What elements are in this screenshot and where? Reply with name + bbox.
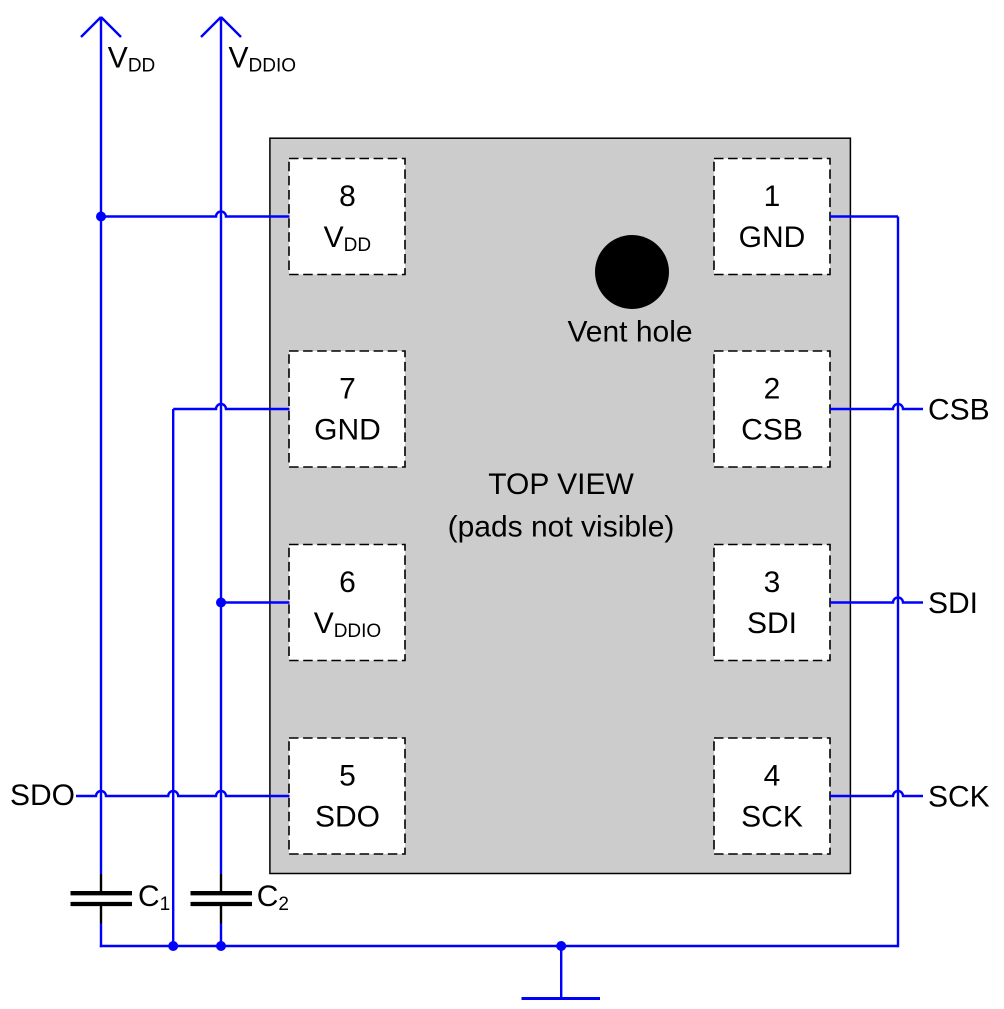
wire pad 7 to GND vertical (hop over VDDIO line) bbox=[173, 404, 289, 409]
pad 1 GND bbox=[714, 159, 830, 275]
wire VDD vertical (x=101) top segment bbox=[100, 17, 102, 874]
wire pad 1 to right vertical bus bbox=[830, 215, 898, 217]
power symbol VDD arrow bbox=[81, 17, 121, 37]
svg-text:TOP VIEW: TOP VIEW bbox=[488, 468, 634, 501]
wire VDD junction to pad 8 (hop over VDDIO line) bbox=[101, 212, 290, 217]
svg-text:SDO: SDO bbox=[315, 801, 380, 834]
pad 7 GND bbox=[289, 351, 405, 467]
node junction dot GND line / bus bbox=[168, 941, 178, 951]
svg-text:3: 3 bbox=[764, 566, 781, 599]
node junction dot ground symbol / bus bbox=[556, 941, 566, 951]
pad 4 SCK bbox=[714, 738, 830, 854]
svg-text:7: 7 bbox=[339, 373, 356, 406]
pad 5 SDO bbox=[289, 738, 405, 854]
node junction dot VDDIO-C2 line / bus bbox=[216, 941, 226, 951]
pad 8 VDD bbox=[289, 159, 405, 275]
capacitor C2 bbox=[191, 874, 253, 924]
svg-text:SCK: SCK bbox=[928, 781, 990, 814]
wire pad 4 to SCK label (hop over right vertical) bbox=[830, 791, 923, 796]
wire VDDIO junction to pad 6 bbox=[221, 601, 290, 603]
chip body U1 (top view) bbox=[270, 138, 851, 873]
node junction dot VDDIO/pad6 bbox=[216, 598, 226, 608]
svg-text:GND: GND bbox=[314, 414, 381, 447]
svg-text:SDO: SDO bbox=[10, 779, 75, 812]
wire VDDIO vertical (x=221) top segment bbox=[220, 17, 222, 874]
svg-text:Vent hole: Vent hole bbox=[567, 316, 692, 349]
svg-text:CSB: CSB bbox=[928, 394, 990, 427]
pad 6 VDDIO bbox=[289, 545, 405, 661]
wire VDD vertical lower segment below C1 bbox=[100, 924, 102, 948]
ground symbol bbox=[522, 946, 601, 999]
svg-text:CSB: CSB bbox=[741, 414, 803, 447]
wire pad 2 to CSB label (hop over right vertical) bbox=[830, 404, 923, 409]
svg-text:(pads not visible): (pads not visible) bbox=[448, 511, 675, 544]
power symbol VDDIO arrow bbox=[201, 17, 241, 37]
wire GND vertical (x=173.2) down to ground bus bbox=[172, 409, 174, 946]
node junction dot VDD/pad8 bbox=[96, 212, 106, 222]
svg-text:4: 4 bbox=[764, 760, 781, 793]
wire pad 3 to SDI label (hop over right vertical) bbox=[830, 598, 923, 603]
svg-text:SDI: SDI bbox=[747, 607, 797, 640]
svg-text:SDI: SDI bbox=[928, 587, 978, 620]
capacitor C1 bbox=[71, 874, 133, 924]
svg-text:8: 8 bbox=[339, 180, 356, 213]
svg-text:SCK: SCK bbox=[741, 801, 803, 834]
wire right vertical (x=898) pad1 down to ground bus bbox=[897, 217, 899, 948]
svg-text:5: 5 bbox=[339, 760, 356, 793]
svg-text:2: 2 bbox=[764, 373, 781, 406]
wire ground bus (bottom horizontal) bbox=[100, 945, 898, 947]
svg-text:GND: GND bbox=[739, 221, 806, 254]
wire SDO label to pad 5 (hops over VDD, GND, VDDIO lines) bbox=[76, 791, 290, 796]
wire VDDIO vertical lower segment below C2 bbox=[220, 924, 222, 947]
vent hole bbox=[595, 235, 669, 309]
svg-text:6: 6 bbox=[339, 566, 356, 599]
svg-text:1: 1 bbox=[764, 180, 781, 213]
pad 2 CSB bbox=[714, 351, 830, 467]
pad 3 SDI bbox=[714, 545, 830, 661]
